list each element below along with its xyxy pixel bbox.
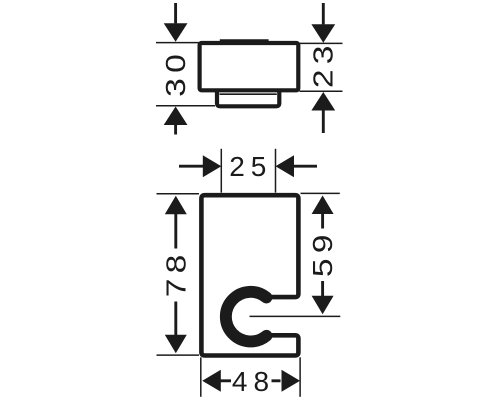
dim 23: bottom extension line xyxy=(300,90,343,92)
dim 25: right arrow (left-pointing) xyxy=(276,155,295,177)
dim 30: bottom arrow (up) xyxy=(164,107,188,126)
dim 78: top arrow (up) xyxy=(165,196,187,215)
side view: body outline with holder slot xyxy=(201,195,298,355)
dim 48: left line segment xyxy=(221,379,232,382)
dim 30: bottom extension line xyxy=(156,105,215,107)
side view: C-clip holder ring xyxy=(226,292,267,342)
dim 23: bottom arrow (up) xyxy=(311,92,335,111)
dim 23: lower leader line xyxy=(322,110,325,133)
svg-text:23: 23 xyxy=(307,40,339,88)
dim 78: upper line segment xyxy=(174,214,177,249)
dim 48: right line segment xyxy=(272,379,281,382)
top view: mounting tab xyxy=(217,89,279,107)
svg-text:25: 25 xyxy=(229,151,272,182)
svg-text:30: 30 xyxy=(159,49,191,97)
top view: tab top thin line xyxy=(220,93,277,95)
dim 25: left extension line xyxy=(220,149,222,193)
svg-text:48: 48 xyxy=(232,366,275,397)
dim 30: top arrow (down) xyxy=(164,23,188,42)
dim 23: top arrow (down) xyxy=(311,24,335,43)
dim 59: lower line segment xyxy=(321,281,324,299)
dim 78: bottom extension line xyxy=(157,354,200,356)
dim 30: upper leader line xyxy=(174,3,177,23)
dim 59: top extension line xyxy=(301,192,340,194)
dim 25: right leader line xyxy=(294,165,317,168)
svg-text:59: 59 xyxy=(307,229,339,277)
dim 59: top arrow (up) xyxy=(312,196,334,215)
top view: main body rect xyxy=(200,43,299,90)
dim 30: lower leader line xyxy=(174,125,177,135)
dim 25: left leader line xyxy=(179,165,204,168)
dim 48: right extension line xyxy=(299,357,301,397)
dim 48: right arrow (right-pointing) xyxy=(282,370,301,392)
dim 25: right extension line xyxy=(275,149,277,193)
svg-text:78: 78 xyxy=(160,249,192,297)
dim 59: upper line segment xyxy=(321,213,324,229)
dim 59: bottom extension line through slot xyxy=(250,315,341,317)
dim 78: top extension line xyxy=(157,193,200,195)
dim 48: left extension line xyxy=(200,357,202,397)
dim 23: upper leader line xyxy=(322,3,325,24)
dim 30: top extension line xyxy=(156,42,199,44)
dim 78: bottom arrow (down) xyxy=(165,335,187,354)
dim 78: lower line segment xyxy=(174,302,177,337)
top view: lid seam line xyxy=(220,39,269,41)
dim 59: bottom arrow (down) xyxy=(312,296,334,315)
dim 48: left arrow (left-pointing) xyxy=(202,370,221,392)
dim 25: left arrow (right-pointing) xyxy=(203,155,222,177)
dim 23: top extension line xyxy=(299,42,343,44)
